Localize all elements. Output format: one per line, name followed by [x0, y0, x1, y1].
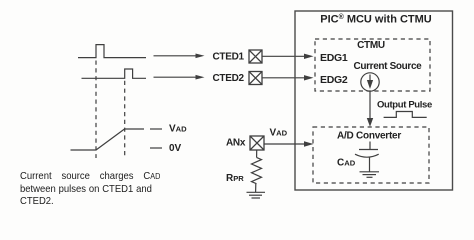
wire arrow waveform1 to CTED1 — [154, 54, 205, 59]
wire CAD charge ramp waveform — [71, 129, 145, 150]
svg-text:EDG1: EDG1 — [320, 52, 348, 64]
wire pin CTED2 to EDG2 — [262, 75, 314, 80]
wire current source to A/D converter — [367, 91, 373, 127]
PIC MCU with CTMU box U1 — [295, 11, 453, 190]
svg-text:CTED2: CTED2 — [213, 73, 245, 84]
pin CTED1 — [249, 50, 262, 63]
capacitor CAD — [355, 142, 379, 172]
svg-text:Current Source: Current Source — [354, 61, 423, 72]
pin ANx — [250, 136, 264, 150]
node VAD level — [150, 124, 187, 135]
node 0V level — [150, 143, 182, 154]
svg-text:CAD: CAD — [337, 158, 356, 169]
svg-text:Output Pulse: Output Pulse — [377, 100, 432, 111]
pin CTED2 — [249, 72, 262, 85]
ground for CAD — [360, 172, 380, 178]
svg-text:ANx: ANx — [226, 138, 246, 149]
wire output pulse waveform — [384, 112, 427, 118]
dashed timing line 1 — [95, 61, 97, 159]
svg-text:0V: 0V — [169, 143, 182, 154]
wire RPR to ground — [255, 184, 257, 192]
caption text — [20, 171, 153, 209]
svg-text:VAD: VAD — [169, 124, 187, 135]
wire ANx to A/D converter — [265, 141, 314, 146]
wire CTED2 pulse waveform — [82, 69, 147, 78]
wire arrow waveform2 to CTED2 — [154, 75, 205, 80]
A/D Converter block — [313, 127, 429, 183]
svg-text:RPR: RPR — [226, 173, 244, 184]
svg-text:CTED1: CTED1 — [213, 51, 245, 62]
current source I1 — [361, 73, 379, 91]
dashed timing line 2 — [124, 81, 126, 158]
svg-text:A/D Converter: A/D Converter — [337, 131, 401, 142]
svg-text:EDG2: EDG2 — [320, 74, 348, 86]
svg-text:CTMU: CTMU — [357, 40, 385, 51]
svg-text:PIC® MCU with CTMU: PIC® MCU with CTMU — [320, 13, 432, 26]
svg-text:VAD: VAD — [270, 128, 288, 139]
ground for RPR — [247, 192, 266, 198]
wire CTED1 pulse waveform — [78, 45, 146, 58]
wire pin CTED1 to EDG1 — [262, 54, 314, 59]
wire ANx to resistor RPR — [256, 150, 258, 157]
resistor RPR — [252, 157, 262, 183]
CTMU block — [315, 39, 430, 91]
